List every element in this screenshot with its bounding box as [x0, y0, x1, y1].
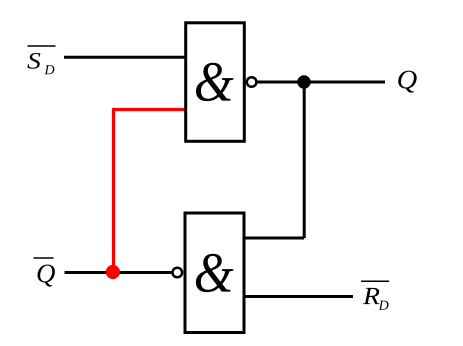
wire: R_D input to bottom gate right side: [242, 295, 353, 298]
label Q_bar overline: [34, 257, 54, 259]
nand gate U2 ampersand symbol: [196, 254, 234, 292]
label S_D overline: [28, 45, 56, 47]
nand gate U1 body (top): [186, 23, 245, 142]
wire: feedback vertical from node Q down: [303, 82, 306, 238]
label letter Q of Q_bar: [37, 264, 54, 286]
label R_D overline: [361, 280, 389, 282]
nand gate U2 output inversion bubble: [173, 268, 183, 278]
wire: feedback horizontal into bottom gate right side: [242, 237, 304, 240]
label letter Q output: [398, 71, 417, 93]
label subscript D of S_D: [44, 65, 54, 74]
nand gate U2 body (bottom): [185, 213, 244, 333]
label letter R: [363, 288, 380, 304]
wire: top gate output to node Q: [253, 81, 385, 84]
wire: Q_bar output line to left: [65, 271, 174, 274]
red feedback wire from node on Q_bar line up to top gate input: [114, 110, 188, 273]
nand gate U1 output inversion bubble: [247, 77, 257, 87]
wire: S_D input to top gate: [64, 56, 187, 59]
nand gate U1 ampersand symbol: [196, 63, 234, 101]
label subscript D of R_D: [379, 301, 389, 310]
junction node Q dot: [297, 75, 310, 88]
label letter S: [27, 53, 40, 69]
red junction node dot on Q_bar wire: [106, 265, 120, 279]
